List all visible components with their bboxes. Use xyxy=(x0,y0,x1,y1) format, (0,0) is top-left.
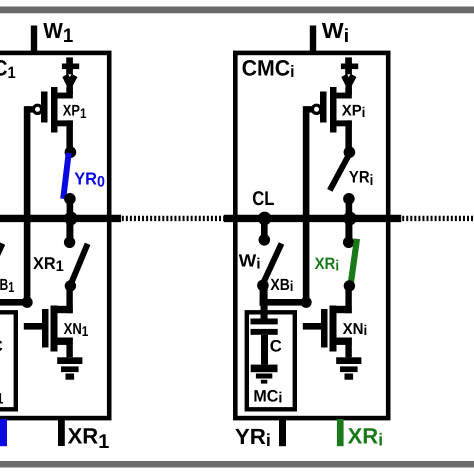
wire XB node down xyxy=(260,285,267,305)
wire W1 terminal xyxy=(31,26,37,54)
wire YR switch to CL xyxy=(346,199,353,219)
node XR switch top xyxy=(64,237,75,248)
node NMOS gate junction xyxy=(22,297,33,308)
ground (XN source) xyxy=(57,357,82,364)
svg-text:XNi: XNi xyxy=(343,321,368,339)
wire XR1 terminal xyxy=(58,418,65,447)
wire XB node to gate junction (horizontal) xyxy=(260,299,310,306)
node CL junction (branch B) xyxy=(64,212,78,226)
svg-text:XRi: XRi xyxy=(348,424,384,450)
node YR switch top xyxy=(65,146,77,158)
svg-text:XN1: XN1 xyxy=(64,321,89,340)
ground (capacitor) xyxy=(251,365,278,373)
svg-text:XBi: XBi xyxy=(270,276,293,295)
wire XB node to gate junction (horizontal) xyxy=(0,299,30,306)
cell CMCi box xyxy=(235,53,388,418)
switch Wi (open) xyxy=(264,244,282,282)
transistor XNi (NMOS) xyxy=(303,284,352,357)
wire PMOS gate to NMOS gate (vertical) xyxy=(303,106,310,303)
svg-text:XPi: XPi xyxy=(342,103,366,120)
svg-text:YRi: YRi xyxy=(235,424,271,450)
wire YR0 terminal (blue) xyxy=(0,419,7,446)
svg-text:CMCi: CMCi xyxy=(242,56,295,81)
svg-text:C: C xyxy=(270,337,282,356)
svg-text:CL: CL xyxy=(252,188,274,210)
wire Wi terminal xyxy=(310,26,316,54)
wire CL bus (dotted, right edge) xyxy=(402,216,474,221)
node YR switch bottom xyxy=(64,193,76,205)
wire XB node to capacitor xyxy=(261,286,268,321)
wire PMOS gate to NMOS gate (vertical) xyxy=(24,106,31,303)
svg-text:XRi: XRi xyxy=(315,254,340,275)
capacitor C xyxy=(251,319,278,365)
memory cell box MCi xyxy=(247,312,295,409)
ground (XN source) xyxy=(336,357,361,364)
wire YR switch to CL xyxy=(67,199,74,219)
node XR switch top xyxy=(343,237,354,248)
transistor XPi (PMOS) xyxy=(305,87,352,152)
node CL junction (branch B) xyxy=(343,212,357,226)
wire CL bus (solid, right cell) xyxy=(224,215,401,222)
switch XRi (closed, green) xyxy=(351,239,357,284)
node CL junction (branch A) xyxy=(258,212,272,226)
switch XR1 (open) xyxy=(71,244,88,284)
node XR switch bottom xyxy=(344,280,355,291)
top border bar xyxy=(0,7,474,14)
switch YRi (open) xyxy=(330,157,348,191)
wire CL bus (solid, left cell) xyxy=(0,215,121,222)
svg-text:MCi: MCi xyxy=(253,386,282,406)
power supply symbol xyxy=(341,57,358,94)
node YR switch bottom xyxy=(343,193,355,205)
wire CL to XR switch xyxy=(66,218,73,242)
transistor XP1 (PMOS) xyxy=(26,87,73,152)
wire CL bus (dotted, between cells) xyxy=(122,216,224,221)
node W switch top xyxy=(259,234,271,246)
svg-text:C: C xyxy=(0,337,3,356)
node YR switch top xyxy=(344,146,356,158)
switch W1 (open) xyxy=(0,244,3,282)
node XBi xyxy=(257,280,269,292)
node NMOS gate junction xyxy=(301,297,312,308)
memory cell box MC1 xyxy=(0,312,16,409)
switch YR0 (closed, blue) xyxy=(63,153,68,199)
bottom border bar xyxy=(0,461,474,468)
power supply symbol xyxy=(62,57,79,94)
cell CMC1 box xyxy=(0,53,109,418)
node XR switch bottom xyxy=(65,280,76,291)
wire YRi terminal xyxy=(279,419,286,446)
transistor XN1 (NMOS) xyxy=(24,284,73,357)
svg-text:XP1: XP1 xyxy=(63,103,87,121)
wire CL to W switch xyxy=(261,218,268,240)
wire CL to XR switch xyxy=(345,218,352,242)
wire XRi terminal (green) xyxy=(337,419,344,446)
